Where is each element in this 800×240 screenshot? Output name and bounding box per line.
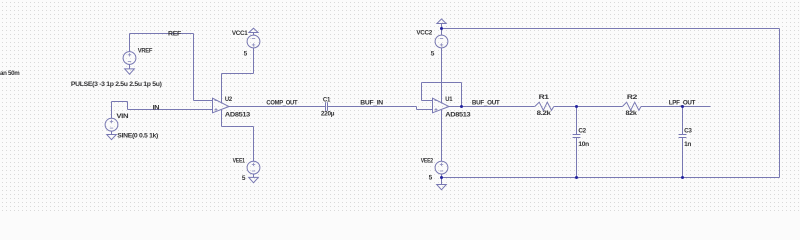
wire VEE2 bottom to ground	[441, 174, 443, 185]
junction C2 bottom	[575, 176, 578, 179]
resistor R1	[535, 102, 554, 110]
svg-text:VCC2: VCC2	[416, 30, 432, 37]
U1 V- supply stub to VEE2	[441, 110, 443, 161]
wire R1 to R2	[554, 106, 623, 108]
ground under VREF	[129, 64, 131, 69]
ground under VEE2	[437, 185, 447, 190]
wire IN vertical from VIN top	[111, 102, 113, 119]
junction VEE2 bottom	[440, 176, 443, 179]
svg-text:IN: IN	[153, 104, 160, 111]
wire REF horizontal top	[130, 33, 194, 35]
ground net: bottom rail	[442, 177, 780, 179]
voltage source VEE2	[435, 161, 448, 174]
svg-text:VEE2: VEE2	[421, 157, 434, 164]
voltage source VCC2 (flipped, gnd on top)	[437, 19, 446, 24]
wire BUF_OUT	[462, 106, 535, 108]
junction C3 bottom	[681, 176, 684, 179]
voltage source VEE1	[247, 161, 260, 174]
capacitor C1	[325, 102, 327, 111]
svg-text:LPF_OUT: LPF_OUT	[669, 100, 696, 107]
wire REF into U2 inverting input	[194, 100, 213, 102]
op-amp U1	[433, 98, 450, 113]
svg-text:COMP_OUT: COMP_OUT	[266, 100, 297, 107]
U1 feedback wire output to dot	[449, 106, 462, 108]
svg-text:220µ: 220µ	[321, 111, 335, 118]
svg-text:C1: C1	[323, 96, 331, 103]
svg-text:BUF_IN: BUF_IN	[360, 100, 383, 107]
U2 V- supply stub	[221, 110, 223, 127]
ground net: top rail	[442, 28, 780, 30]
voltage source VCC1 (flipped, gnd on top)	[249, 28, 258, 32]
capacitor C3	[682, 107, 684, 135]
svg-text:R1: R1	[539, 94, 550, 101]
wire COMP_OUT	[229, 106, 326, 108]
U1 V+ supply stub to VCC2	[441, 48, 443, 104]
svg-text:AD8513: AD8513	[445, 111, 471, 118]
svg-text:C3: C3	[684, 128, 692, 135]
wire REF vertical from VREF top	[129, 34, 131, 52]
resistor R2	[622, 102, 641, 110]
U2 V+ supply stub	[221, 74, 223, 104]
svg-text:REF: REF	[168, 30, 181, 37]
voltage source VIN	[105, 118, 118, 131]
svg-text:R2: R2	[627, 94, 638, 101]
svg-text:8.2k: 8.2k	[537, 110, 552, 117]
op-amp U2	[213, 98, 230, 113]
junction C2 top	[575, 105, 578, 108]
svg-text:VREF: VREF	[138, 47, 153, 54]
svg-text:U2: U2	[225, 96, 233, 103]
voltage source VREF	[123, 52, 136, 65]
svg-text:PULSE(3 -3 1p 2.5u 2.5u 1p 5u): PULSE(3 -3 1p 2.5u 2.5u 1p 5u)	[71, 81, 162, 88]
svg-text:AD8513: AD8513	[225, 111, 251, 118]
svg-text:an 50m: an 50m	[0, 70, 20, 77]
wire IN into U2 non-inverting input	[128, 109, 213, 111]
svg-text:82k: 82k	[626, 110, 638, 117]
capacitor C2	[576, 107, 578, 135]
svg-text:1n: 1n	[684, 141, 691, 148]
wire VCC1 to U2	[253, 48, 255, 74]
svg-text:10n: 10n	[578, 141, 589, 148]
ground under VIN	[111, 131, 113, 134]
junction U1 output	[460, 105, 463, 108]
junction C3 top	[681, 105, 684, 108]
svg-text:SINE(0 0.5 1k): SINE(0 0.5 1k)	[117, 133, 158, 140]
svg-text:VCC1: VCC1	[232, 30, 248, 37]
ground under VEE1	[253, 174, 255, 177]
svg-text:VIN: VIN	[116, 113, 129, 120]
wire U2 to VEE1	[222, 126, 254, 128]
ground net: right edge	[779, 29, 781, 178]
wire IN jog down	[127, 102, 129, 110]
svg-text:U1: U1	[445, 96, 453, 103]
svg-text:VEE1: VEE1	[233, 157, 246, 164]
junction VCC2 top	[440, 27, 443, 30]
wire LPF_OUT	[641, 106, 711, 108]
svg-text:C2: C2	[578, 128, 586, 135]
wire BUF_IN	[328, 106, 417, 108]
svg-text:BUF_OUT: BUF_OUT	[472, 100, 500, 107]
wire REF vertical down to U2	[193, 34, 195, 101]
wire IN horizontal upper	[112, 101, 128, 103]
